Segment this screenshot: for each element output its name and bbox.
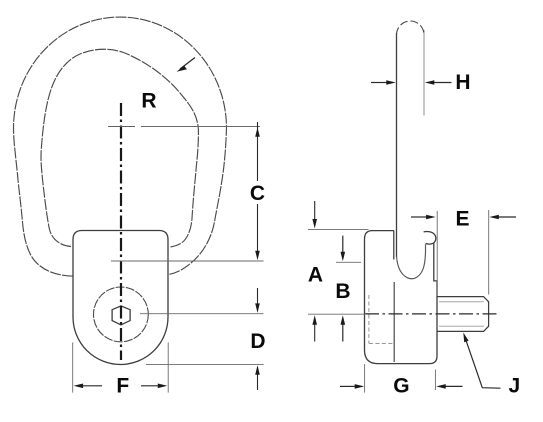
dimension F left arrow	[83, 385, 102, 387]
left view: extension line at body bottom (D bottom)	[146, 364, 264, 366]
dimension G left arrow	[340, 385, 356, 387]
radius R leader arrow	[180, 58, 195, 70]
right view: slot line through body	[393, 282, 395, 362]
right view: hidden thread hole bottom line	[369, 342, 394, 344]
svg-text:B: B	[335, 280, 350, 303]
right view: G left extension line	[364, 364, 366, 393]
dimension C upper arrow	[257, 122, 259, 129]
svg-text:H: H	[455, 71, 470, 94]
dimension A top arrow	[314, 201, 316, 221]
left view: boss circle around hex socket	[94, 287, 149, 342]
dimension B bottom arrow	[342, 323, 344, 342]
svg-text:E: E	[455, 208, 469, 231]
dimension G right arrow	[445, 385, 463, 387]
right view: bail lower U bend	[397, 244, 426, 278]
right view: bail bar top cap arc	[397, 21, 425, 35]
left view: vertical centerline	[120, 103, 122, 360]
left view: F left extension line	[72, 342, 74, 392]
dimension E right arrow	[498, 216, 517, 218]
left view: bail (ring) inner profile	[41, 49, 198, 247]
right view: stud thread minor line bottom	[439, 325, 484, 327]
right view: E left extension / body edge line	[436, 211, 438, 296]
right view: hidden thread hole left line	[368, 295, 370, 343]
dimension H right arrow	[434, 82, 452, 84]
svg-text:C: C	[250, 182, 265, 205]
left view: F right extension line	[167, 342, 169, 392]
left view: body outline	[73, 231, 168, 365]
svg-text:F: F	[116, 374, 129, 397]
left view: bail (ring) outer profile	[14, 17, 227, 276]
right view: bail bar left line	[396, 33, 398, 257]
left view: extension line at ring center (C top)	[141, 126, 260, 128]
dimension E left arrow	[411, 216, 427, 218]
svg-text:A: A	[308, 263, 323, 286]
leader line J	[466, 340, 501, 388]
right view: extension line body top (A top)	[308, 228, 369, 230]
svg-text:G: G	[393, 375, 409, 398]
right view: stud thread minor line top	[439, 301, 484, 303]
right view: notch left wall	[393, 231, 395, 260]
dimension A bottom arrow	[314, 323, 316, 342]
dimension D upper arrow	[257, 288, 259, 305]
svg-text:D: D	[250, 330, 265, 353]
left view: extension line at hex center (D top)	[140, 313, 264, 315]
dimension F right arrow	[141, 385, 158, 387]
svg-text:R: R	[141, 90, 156, 113]
dimension C lower arrow	[257, 204, 259, 252]
right view: E right extension line	[488, 210, 490, 295]
svg-text:J: J	[508, 375, 520, 398]
left view: center cross tick	[108, 126, 135, 128]
right view: extension line bail seat (B top)	[336, 261, 361, 263]
dimension H left arrow	[371, 82, 387, 84]
right view: stud horizontal centerline	[365, 313, 500, 315]
right view: extension line stud center (A/B bottom)	[308, 313, 366, 315]
right view: threaded stud outline	[437, 297, 489, 332]
left view: extension line at shoulder (C bottom)	[111, 260, 264, 262]
right view: G right extension line	[434, 369, 436, 390]
right view: body outline	[365, 231, 438, 364]
dimension D lower arrow	[257, 368, 259, 391]
right view: bail bar right line	[423, 30, 425, 116]
left view: hex socket	[112, 306, 130, 325]
dimension B top arrow	[342, 236, 344, 254]
right view: bail hook end curl	[424, 232, 436, 245]
